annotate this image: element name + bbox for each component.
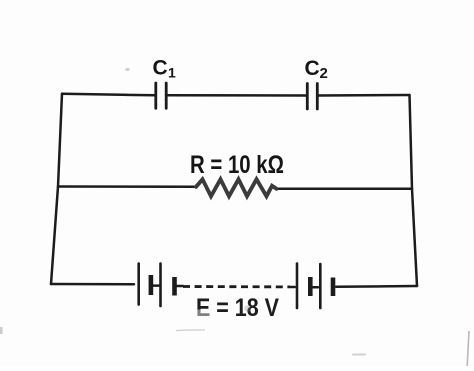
svg-text:C: C (153, 57, 168, 80)
svg-text:1: 1 (168, 65, 176, 81)
svg-text:C: C (305, 57, 320, 80)
svg-text:R = 10 kΩ: R = 10 kΩ (190, 151, 284, 179)
svg-text:E = 18 V: E = 18 V (196, 294, 279, 322)
svg-text:2: 2 (320, 65, 328, 82)
